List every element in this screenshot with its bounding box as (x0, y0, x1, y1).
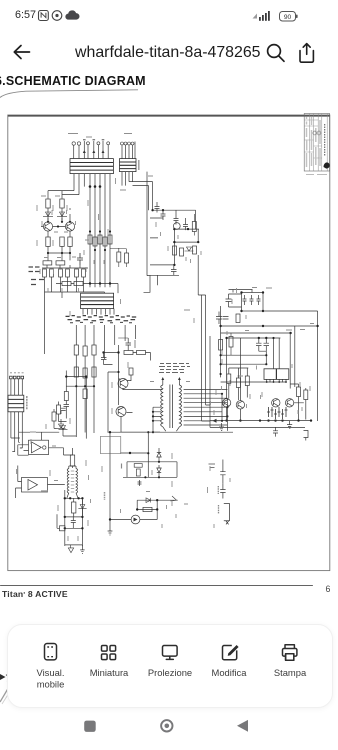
wire (118, 338, 135, 348)
signal bars (253, 11, 270, 21)
diode D2 (57, 212, 67, 216)
arrow mark (171, 496, 177, 501)
transistor Q1 (43, 222, 52, 231)
wire (63, 430, 76, 436)
IC pin dots (266, 381, 287, 383)
frame top heavy edge (8, 115, 330, 117)
bridge elem 3 (257, 295, 261, 305)
power diode cluster (267, 407, 288, 419)
transistor Q2 (65, 222, 74, 231)
resistor R27 (245, 376, 249, 386)
diode D5 (57, 424, 66, 428)
wire lb2 (54, 409, 66, 428)
left bus down from amp (45, 292, 105, 354)
svg-text:mobile: mobile (37, 679, 65, 690)
status bar (15, 9, 36, 21)
J4 side label (26, 396, 28, 410)
capacitor C10 (264, 338, 270, 351)
bus from J2 to right (129, 172, 153, 276)
bottom sheet card (7, 624, 333, 708)
transistor Q4 (222, 399, 230, 407)
svg-text:Miniatura: Miniatura (90, 667, 129, 678)
resistor R17 (103, 237, 107, 246)
label W (121, 464, 123, 469)
wire top cluster (229, 290, 253, 308)
resistor R52 (219, 340, 223, 351)
junction dots q (117, 371, 154, 433)
component stub (138, 480, 142, 486)
diode D1 (43, 212, 53, 216)
tiny label blc (41, 490, 48, 492)
wires to right rails (20, 371, 86, 448)
svg-text:Visual.: Visual. (37, 667, 65, 678)
resistor R4 (60, 237, 64, 246)
icon: miniatura (102, 646, 116, 660)
resistor R40 horizontal (134, 464, 142, 468)
left bottom connector J4 pins tops (10, 376, 24, 379)
diode D4 (157, 448, 161, 462)
wire connections mid (229, 368, 249, 400)
left tap bus (153, 407, 160, 432)
cluster dots (225, 419, 283, 421)
schematic sheet frame (8, 115, 330, 571)
capacitor C15 (220, 460, 225, 484)
resistor R54 (192, 222, 196, 232)
IC pins (267, 379, 286, 382)
icon: modifica (223, 645, 239, 660)
L1 leads (67, 466, 78, 498)
resistor R38 (60, 526, 65, 531)
resistor R50 (117, 252, 121, 262)
capacitor C16 (220, 483, 225, 498)
resistor R1 (46, 199, 50, 208)
section heading (0, 74, 146, 88)
title block inner columns (310, 114, 328, 172)
capacitor C17 (126, 338, 132, 351)
wires below J1 (74, 174, 110, 288)
resistor R10 (59, 269, 63, 277)
resistor R46 (57, 405, 61, 414)
bottom row parts left (43, 269, 86, 277)
search icon (268, 45, 284, 62)
resistor R26 (236, 378, 240, 388)
J4 pin top labels (10, 372, 24, 374)
wire stubs below resistors (76, 355, 94, 437)
junction dots rails (219, 325, 318, 334)
resistor R22 (180, 248, 184, 256)
junction dots (151, 209, 199, 266)
wire (62, 208, 70, 222)
bridge elem 2 (250, 295, 254, 305)
resistor R44 (92, 345, 96, 355)
tap arrow component (213, 419, 217, 423)
title block bold vertical model text (324, 124, 326, 156)
wire blc (74, 498, 83, 517)
resistor R15 (93, 237, 97, 246)
resistor R28 (297, 387, 301, 397)
back arrow (14, 46, 29, 59)
resistor R42 (74, 345, 78, 355)
connector J4 stripes (8, 399, 24, 407)
resistor R35 (52, 412, 56, 421)
resistor R5 (68, 237, 72, 246)
ground GND4 (219, 423, 224, 431)
capacitor C8 (223, 317, 229, 320)
resistor R8 (43, 269, 47, 277)
wire pair vertical to lower network (198, 242, 205, 421)
capacitor C6 (226, 294, 232, 307)
svg-text:Prolezione: Prolezione (148, 667, 192, 678)
icon: stampa (283, 645, 297, 661)
transistor Q3 (173, 223, 180, 230)
transformer T1 core (170, 385, 173, 429)
resistor R34 (64, 392, 68, 401)
transistor Q6 (272, 399, 280, 407)
junction dots (220, 337, 275, 375)
wire (110, 248, 127, 267)
wire q8q9 (119, 375, 161, 432)
footer heavy rule (0, 585, 313, 587)
status icon: cloud (65, 10, 79, 19)
resistor R33 (129, 368, 133, 375)
resistor R16 (98, 235, 102, 244)
tie dots (75, 385, 95, 387)
bridge elem 1 (243, 295, 247, 305)
bridge outline (242, 293, 264, 312)
T1 top lead arrows (163, 379, 180, 386)
IC feed verticals (274, 326, 295, 389)
resistor R37 (72, 502, 76, 513)
capacitor C14 (71, 517, 76, 528)
junction dots rails2 (259, 419, 312, 421)
capacitor C1 (77, 253, 83, 265)
top rail (227, 338, 281, 401)
battery (280, 12, 298, 22)
resistor R2 (60, 199, 64, 208)
junction dots blc (64, 497, 84, 529)
junction dots (102, 351, 119, 353)
wire row (56, 284, 118, 294)
transistor Q7 (285, 399, 293, 407)
resistor R23 (193, 246, 197, 254)
diode D6 (78, 505, 86, 509)
junction dots (47, 252, 71, 254)
wires below J2 (122, 172, 133, 186)
label (217, 486, 219, 494)
label text block above transformer T1 (159, 364, 190, 373)
underlying document marks (left of bottom sheet) (0, 668, 30, 710)
switch S1 bracket (224, 504, 230, 521)
connector J2 stripes (120, 162, 137, 169)
bridge corner dots (240, 291, 264, 312)
diode D7 (146, 498, 151, 503)
wires fanning below J3 (76, 325, 135, 359)
wire long left (104, 365, 119, 433)
top pin header P2 leads (122, 142, 135, 159)
wire (48, 208, 62, 222)
transformer T1 secondary winding (179, 385, 181, 427)
connector J4 body (8, 395, 24, 412)
svg-text:Stampa: Stampa (274, 667, 307, 678)
resistor R53 (229, 337, 233, 348)
diode D3 (185, 247, 194, 251)
title block row lines (304, 120, 322, 158)
resistor R12 (75, 269, 79, 277)
resistor R18 (108, 235, 112, 244)
IC U2 (277, 369, 289, 380)
wires right cluster (290, 384, 306, 421)
title block border (304, 114, 329, 172)
label (238, 375, 244, 377)
capacitor C3 (161, 210, 166, 220)
pin arrows on P1 (83, 150, 105, 153)
connector J1 body (70, 159, 113, 174)
J3 pin label band (66, 316, 137, 323)
connector J1 stripes (70, 163, 113, 171)
left tap dots (152, 411, 154, 422)
wire (48, 246, 70, 260)
capacitor C18 (273, 427, 278, 436)
resistor R32 horizontal (137, 351, 146, 355)
svg-text:Modifica: Modifica (212, 667, 248, 678)
left drop wires from J1 (48, 191, 79, 199)
mid bus resistors row (88, 235, 112, 246)
inductor L1 hatches (71, 471, 74, 492)
title block bottom caption text (306, 174, 327, 176)
transistor Q8 (118, 379, 128, 389)
T1 primary taps left (123, 390, 163, 421)
labels (37, 667, 307, 690)
resistor R24 (236, 314, 240, 323)
base rail Q1-Q2 (41, 218, 70, 237)
resistor R36 (70, 455, 74, 466)
wire blc2 (57, 514, 60, 528)
wire (64, 448, 73, 468)
wire stub (84, 399, 86, 433)
diode D9 (157, 465, 161, 477)
wire (45, 277, 105, 292)
resistor R25 (227, 374, 231, 384)
resistor R43 (83, 346, 87, 356)
resistor R20 horizontal (74, 281, 83, 285)
wire (104, 345, 119, 405)
resistor R31 horizontal (124, 351, 133, 355)
top pin header P1 circles (72, 142, 110, 145)
T1 bottom leads (160, 427, 233, 432)
IC U1 (264, 369, 276, 380)
icon: visual mobile (45, 644, 57, 660)
op-amp U3 box (29, 440, 49, 454)
connector J2 body (120, 159, 137, 172)
resistor R49 (92, 367, 96, 377)
node rail right (221, 306, 318, 421)
J3 pins below (83, 309, 114, 315)
thyristor circle (131, 515, 140, 524)
resistor R47 (74, 367, 78, 377)
ground GND2 (68, 545, 73, 553)
top pin header P2 circles (121, 142, 135, 145)
mid rails into IC (221, 351, 286, 382)
title block circles OO (313, 131, 317, 135)
wire elbow (198, 255, 205, 295)
resistor R29 (304, 390, 308, 400)
transistor Q9 (116, 407, 126, 417)
marks far left (29, 267, 45, 285)
transistor Q5 (236, 401, 244, 409)
routing box (100, 437, 121, 454)
mid cluster rails (123, 453, 177, 477)
resistor R13 (82, 269, 86, 277)
resistor R48 (83, 368, 87, 378)
U4 wires (16, 466, 65, 499)
ground GND3 (108, 531, 113, 535)
label WT (209, 464, 216, 468)
op-amp U3 triangle (32, 442, 42, 453)
capacitor C12 (101, 353, 107, 365)
resistor R19 horizontal (62, 281, 71, 285)
junction dots bm (109, 499, 159, 521)
J4 bottom leads (11, 412, 22, 452)
icon: proiezione monitor (163, 646, 178, 660)
resistor R39 (143, 507, 152, 511)
terminal X1 (80, 545, 84, 554)
op-amp U4 triangle (28, 480, 38, 491)
connector J3 body (81, 293, 114, 308)
junction dots (89, 282, 111, 284)
connector J3 stripes (81, 297, 114, 305)
small parts lower left (59, 426, 68, 430)
wire node bus (144, 210, 199, 292)
share icon (300, 44, 313, 63)
ground GND1 (287, 421, 292, 429)
junction dots below J1 (89, 185, 102, 188)
resistor R51 (125, 253, 129, 263)
bottom sheet icons (0, 624, 338, 706)
resistor R6 horizontal (43, 261, 52, 265)
capacitor C20 (174, 210, 179, 224)
tap collector line (222, 394, 227, 431)
J2 right side label (138, 160, 140, 170)
dots (144, 452, 160, 478)
capacitor C19 (61, 408, 66, 410)
resistor R14 (88, 235, 92, 244)
resistor R41 (136, 469, 140, 476)
T1 secondary taps (184, 390, 228, 425)
junction dots (109, 431, 131, 454)
tie rail (66, 385, 94, 387)
inductor L1 winding right (76, 469, 78, 494)
junction dots mid bus (89, 230, 111, 251)
U3 top feed (19, 432, 59, 440)
wire (108, 432, 161, 531)
resistor R9 (50, 269, 54, 277)
capacitor C9 (256, 338, 262, 351)
junction dots lb (65, 375, 87, 377)
resistor R11 (66, 269, 70, 277)
capacitor C7 (216, 312, 222, 325)
capacitor C2 (155, 202, 160, 213)
wire bm (110, 500, 178, 519)
wire (59, 402, 67, 422)
resistor R3 (46, 237, 50, 246)
resistor R30 hook (304, 431, 309, 441)
title block faint text left column (307, 117, 321, 168)
resistor R7 horizontal (56, 261, 65, 265)
resistor R45 (83, 389, 87, 399)
wire r54 (193, 214, 195, 236)
transformer T1 primary winding (161, 385, 163, 427)
wire stub r53 (230, 333, 232, 355)
scattered tiny value labels (17, 134, 315, 542)
op-amp U4 box (22, 478, 48, 493)
title block logo (324, 162, 330, 168)
wire row to bottom row (42, 265, 88, 268)
navigation bar (0, 712, 338, 750)
J4 pin leads (11, 379, 22, 395)
status icon: app square (39, 11, 49, 21)
bottom-left column rails (65, 490, 83, 546)
terminal mark (226, 521, 229, 524)
top pin header P1 leads (74, 141, 109, 158)
capacitor C4 (183, 218, 188, 230)
U3 wires (18, 445, 64, 455)
wire (133, 353, 151, 361)
resistor R21 (173, 246, 177, 255)
junction dots amp (47, 221, 71, 228)
pin top tick marks (83, 139, 104, 141)
app bar (0, 36, 338, 70)
vertical label (104, 492, 106, 500)
capacitor C5 (171, 265, 177, 276)
label (218, 505, 220, 514)
inductor L1 winding left (67, 469, 69, 494)
bottom rails (210, 336, 312, 427)
left pair to rails (202, 405, 210, 421)
status icon: whatsapp (52, 11, 62, 21)
tap junction dots (221, 393, 229, 422)
capacitor C13 (64, 401, 70, 411)
